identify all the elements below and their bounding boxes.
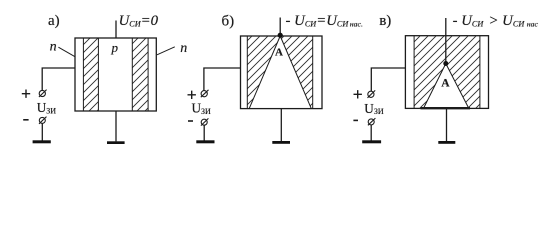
wire drain top (panel a) <box>115 21 117 39</box>
wire battery to ground (panel a) <box>41 123 43 140</box>
pointer line n-right (panel a) <box>157 47 175 55</box>
wire drain top (panel b) <box>279 18 281 37</box>
wire gate (panel v) <box>371 68 405 91</box>
svg-text:А: А <box>441 77 450 89</box>
body box (panel b) <box>241 36 323 109</box>
ground bar battery (panel v) <box>362 140 381 143</box>
wire source bottom (panel a) <box>115 111 117 141</box>
junction line right (panel b) <box>312 36 314 109</box>
ground bar source (panel a) <box>107 141 125 144</box>
channel boundary left diagonal (panel v) <box>424 64 446 109</box>
label + (panel v) <box>354 90 362 98</box>
terminal circle minus (panel b) <box>201 119 207 125</box>
wire battery to ground (panel v) <box>370 125 372 141</box>
junction line left (panel v) <box>413 36 415 109</box>
terminal circle minus (panel v) <box>368 119 374 125</box>
wire drain top (panel v) <box>445 18 447 36</box>
pinch-off point dot (panel v) <box>443 61 448 66</box>
depletion region right hatch (panel a) <box>132 38 148 111</box>
wire gate (panel b) <box>204 68 241 91</box>
body box (panel v) <box>405 36 488 109</box>
pinch-off point dot (panel b) <box>278 33 283 38</box>
svg-text:в): в) <box>379 13 391 29</box>
terminal circle plus (panel v) <box>368 91 374 97</box>
ground bar battery (panel b) <box>196 140 214 143</box>
svg-text:А: А <box>275 47 283 59</box>
label minus (panel v) <box>353 119 358 121</box>
depletion hatch region (panel v) <box>414 36 480 109</box>
svg-text:а): а) <box>48 13 60 29</box>
ground bar source (panel b) <box>272 141 290 144</box>
label + (panel a) <box>22 90 30 98</box>
ground bar source (panel v) <box>438 141 455 144</box>
n-type body box (panel a) <box>75 38 156 111</box>
depletion region left hatch (panel a) <box>83 38 98 111</box>
label minus (panel a) <box>23 119 28 121</box>
svg-text:p: p <box>111 40 119 55</box>
terminal circle minus (panel a) <box>39 117 45 123</box>
svg-text:б): б) <box>222 13 235 29</box>
label + (panel b) <box>188 91 196 99</box>
wire gate (panel a) <box>42 68 75 90</box>
terminal circle plus (panel a) <box>39 90 45 96</box>
wire battery to ground (panel b) <box>203 125 205 140</box>
depletion hatch right wedge (panel b) <box>280 36 313 109</box>
wire drain inside to pinch-off point (panel v) <box>445 36 447 64</box>
channel base line (panel v) <box>421 107 471 109</box>
svg-text:n: n <box>180 41 187 56</box>
junction line left (panel b) <box>246 36 248 109</box>
terminal circle plus (panel b) <box>201 91 207 97</box>
junction line right (panel v) <box>479 36 481 109</box>
depletion hatch left wedge (panel b) <box>247 36 280 109</box>
depletion boundary right diagonal (panel b) <box>280 36 311 109</box>
ground bar battery (panel a) <box>33 140 51 143</box>
channel boundary right diagonal (panel v) <box>446 64 469 109</box>
wire source bottom (panel b) <box>280 109 282 142</box>
label minus (panel b) <box>188 120 193 122</box>
wire source bottom (panel v) <box>446 108 448 141</box>
svg-text:n: n <box>50 39 57 54</box>
depletion boundary left diagonal (panel b) <box>249 36 280 109</box>
pointer line n-left (panel a) <box>58 47 75 57</box>
